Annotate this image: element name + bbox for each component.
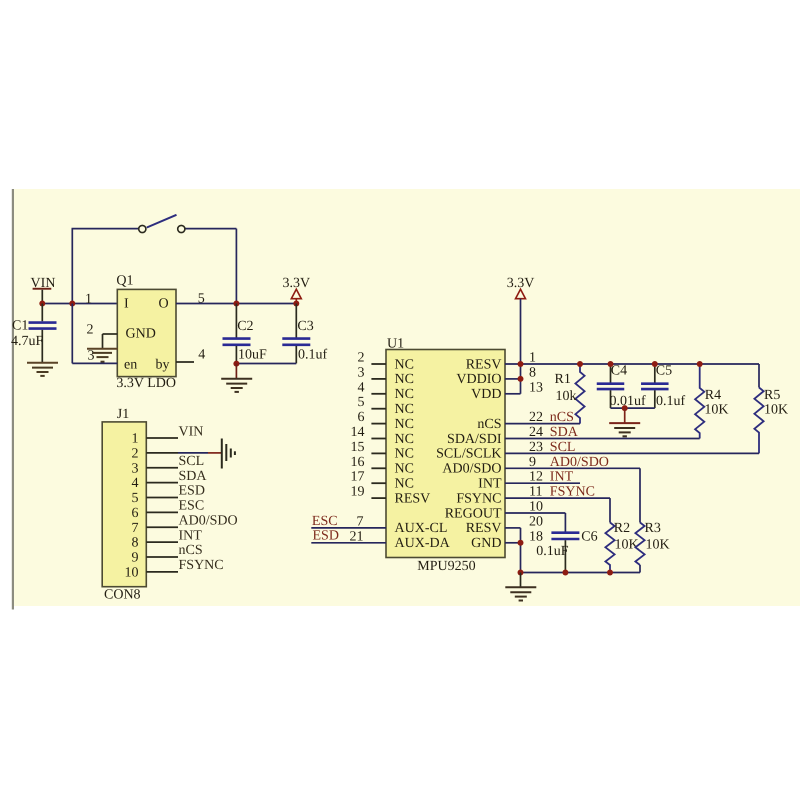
ground (C1) — [27, 363, 58, 376]
svg-text:2: 2 — [87, 323, 94, 338]
svg-text:5: 5 — [132, 491, 139, 506]
svg-text:SDA/SDI: SDA/SDI — [447, 432, 502, 447]
svg-text:O: O — [159, 297, 169, 312]
svg-text:2: 2 — [132, 446, 139, 461]
resistor R5 — [754, 364, 788, 453]
svg-text:AUX-DA: AUX-DA — [395, 536, 451, 551]
svg-text:3: 3 — [132, 461, 139, 476]
wire Q1 pin 2 to ground — [103, 334, 118, 349]
svg-text:FSYNC: FSYNC — [456, 491, 501, 506]
ground (C2) — [221, 364, 252, 392]
svg-text:FSYNC: FSYNC — [550, 485, 595, 500]
svg-text:NC: NC — [395, 387, 414, 402]
regulator Q1 3.3V LDO — [116, 274, 176, 391]
svg-text:GND: GND — [126, 327, 156, 342]
svg-text:INT: INT — [478, 477, 502, 492]
svg-text:LDO: LDO — [147, 376, 176, 391]
wire INT stub (pin 12) — [505, 482, 580, 484]
net label VIN (J1) — [179, 424, 204, 439]
svg-text:FSYNC: FSYNC — [179, 558, 224, 573]
svg-text:VIN: VIN — [179, 424, 204, 439]
svg-text:11: 11 — [529, 485, 542, 500]
svg-text:R5: R5 — [764, 388, 780, 403]
pin number 20 (U1) — [529, 514, 543, 529]
wire U1 left pin stubs — [371, 364, 386, 498]
svg-text:en: en — [124, 358, 137, 373]
junction C4 top — [608, 361, 614, 367]
svg-text:MPU9250: MPU9250 — [417, 559, 475, 574]
IC U1 MPU9250 — [386, 337, 505, 575]
svg-text:8: 8 — [529, 365, 536, 380]
resistor R4 — [695, 364, 728, 439]
wire ground rail — [521, 572, 641, 574]
svg-text:19: 19 — [351, 485, 365, 500]
svg-text:RESV: RESV — [466, 357, 502, 372]
pin number 23 / net label SCL — [529, 440, 575, 455]
ground (C4 C5) — [609, 408, 640, 436]
pin number 18 (U1) — [529, 529, 543, 544]
svg-text:NC: NC — [395, 432, 414, 447]
svg-text:5: 5 — [358, 395, 365, 410]
net label ESC (J1) — [179, 499, 205, 514]
svg-text:9: 9 — [132, 551, 139, 566]
power 3.3V (left) — [282, 276, 310, 304]
wire VDDIO stub — [505, 378, 521, 380]
svg-text:C6: C6 — [581, 529, 597, 544]
svg-text:SCL: SCL — [179, 454, 205, 469]
svg-text:16: 16 — [351, 455, 365, 470]
junction ground rail left — [518, 570, 524, 576]
svg-text:GND: GND — [471, 536, 501, 551]
junction R2 bottom — [607, 570, 613, 576]
wire Q1 pin 4 stub — [176, 361, 194, 363]
svg-text:INT: INT — [179, 528, 203, 543]
junction pin18/pin20 — [518, 540, 524, 546]
svg-text:15: 15 — [351, 440, 365, 455]
svg-text:by: by — [156, 358, 170, 373]
wire switch right leg — [185, 229, 237, 304]
svg-text:RESV: RESV — [395, 491, 431, 506]
pin number 22 / net label nCS — [529, 410, 574, 425]
switch S1 — [139, 215, 185, 233]
ground (U1) — [505, 573, 536, 601]
svg-text:6: 6 — [358, 410, 365, 425]
resistor R2 — [605, 521, 638, 573]
svg-text:14: 14 — [351, 425, 365, 440]
net label FSYNC (J1) — [179, 558, 224, 573]
svg-text:9: 9 — [529, 455, 536, 470]
svg-text:R2: R2 — [614, 521, 630, 536]
svg-text:nCS: nCS — [179, 543, 203, 558]
pin number 11 / net label FSYNC — [529, 485, 595, 500]
svg-text:C1: C1 — [12, 319, 28, 334]
svg-text:CON8: CON8 — [104, 588, 141, 603]
svg-text:R1: R1 — [555, 372, 571, 387]
svg-text:10K: 10K — [764, 402, 788, 417]
svg-text:12: 12 — [529, 470, 543, 485]
svg-text:0.1uf: 0.1uf — [656, 394, 686, 409]
svg-text:R4: R4 — [705, 388, 721, 403]
svg-text:VDD: VDD — [471, 387, 501, 402]
svg-text:ESC: ESC — [312, 514, 338, 529]
wire en (pin 3) — [72, 304, 117, 364]
pin number 24 / net label SDA — [529, 425, 579, 440]
earth ground (J1 pin 2) — [222, 439, 235, 469]
svg-text:ESD: ESD — [179, 484, 205, 499]
svg-text:I: I — [124, 297, 129, 312]
net label ESC (U1 pin 7) — [312, 514, 364, 529]
svg-text:R3: R3 — [645, 521, 661, 536]
svg-text:1: 1 — [85, 292, 92, 307]
svg-text:C4: C4 — [611, 363, 627, 378]
junction C4/C5 ground — [622, 405, 628, 411]
wire VDD stub — [505, 393, 521, 395]
wire nCS (pin 22) — [505, 423, 580, 425]
capacitor C2 — [223, 304, 268, 364]
power 3.3V (U1) — [507, 276, 535, 394]
capacitor C3 — [282, 304, 327, 364]
svg-text:10K: 10K — [704, 402, 728, 417]
junction C2 top — [233, 301, 239, 307]
svg-text:18: 18 — [529, 529, 543, 544]
svg-text:10uF: 10uF — [238, 348, 267, 363]
net label nCS (J1) — [179, 543, 203, 558]
svg-text:20: 20 — [529, 514, 543, 529]
svg-text:17: 17 — [351, 470, 365, 485]
svg-text:24: 24 — [529, 425, 543, 440]
junction 3.3V node — [293, 301, 299, 307]
svg-text:NC: NC — [395, 402, 414, 417]
junction VIN — [39, 301, 45, 307]
svg-text:NC: NC — [395, 462, 414, 477]
pin number 1 (U1) — [529, 351, 536, 366]
junction VDDIO — [518, 376, 524, 382]
wire GND (pin 18) — [505, 543, 521, 573]
svg-text:INT: INT — [550, 470, 574, 485]
svg-text:4.7uF: 4.7uF — [11, 334, 44, 349]
svg-text:Q1: Q1 — [116, 274, 133, 289]
capacitor C5 — [641, 363, 685, 409]
pin number 3 (Q1) — [88, 349, 95, 364]
junction C5 top — [652, 361, 658, 367]
U1 left pin numbers — [351, 351, 365, 500]
pin number 9 / net label AD0/SDO — [529, 455, 609, 470]
capacitor C4 — [597, 363, 646, 409]
svg-text:SCL/SCLK: SCL/SCLK — [436, 447, 501, 462]
net label ESD (U1 pin 21) — [313, 529, 364, 545]
junction C2 ground — [233, 361, 239, 367]
svg-text:VDDIO: VDDIO — [456, 372, 501, 387]
svg-text:10: 10 — [529, 500, 543, 515]
wire C4 C5 bottom link — [611, 407, 655, 409]
svg-text:0.1uf: 0.1uf — [298, 348, 328, 363]
junction R4 top — [697, 361, 703, 367]
pin number 1 (Q1) — [85, 292, 92, 307]
pin number 8 (U1) — [529, 365, 536, 380]
svg-text:C2: C2 — [237, 319, 253, 334]
capacitor C6 — [536, 529, 597, 572]
svg-text:NC: NC — [395, 447, 414, 462]
capacitor C1 — [11, 304, 57, 363]
connector J1 CON8 — [102, 407, 146, 603]
net label SDA (J1) — [179, 469, 208, 484]
svg-text:nCS: nCS — [477, 417, 501, 432]
svg-text:SDA: SDA — [179, 469, 208, 484]
net label AD0/SDO (J1) — [179, 514, 238, 529]
svg-text:RESV: RESV — [466, 521, 502, 536]
resistor R1 — [555, 364, 585, 424]
svg-text:2: 2 — [358, 351, 365, 366]
svg-text:8: 8 — [132, 536, 139, 551]
svg-text:AD0/SDO: AD0/SDO — [179, 514, 238, 529]
wire SCL (pin 23) — [505, 452, 759, 454]
svg-text:SDA: SDA — [550, 425, 579, 440]
svg-text:NC: NC — [395, 477, 414, 492]
power flag VIN — [31, 276, 56, 304]
ground (Q1 pin 2) — [87, 349, 118, 362]
wire Q1 output rail — [176, 303, 296, 305]
wire J1 pin stubs — [146, 438, 178, 572]
svg-text:NC: NC — [395, 372, 414, 387]
net label SCL (J1) — [179, 454, 205, 469]
svg-text:REGOUT: REGOUT — [445, 506, 502, 521]
wire C2 C3 bottom link — [236, 363, 296, 365]
svg-text:0.01uf: 0.01uf — [610, 394, 647, 409]
svg-text:AUX-CL: AUX-CL — [395, 521, 448, 536]
svg-text:23: 23 — [529, 440, 543, 455]
svg-text:3: 3 — [88, 349, 95, 364]
svg-text:22: 22 — [529, 410, 543, 425]
svg-text:AD0/SDO: AD0/SDO — [550, 455, 609, 470]
svg-text:C5: C5 — [656, 363, 672, 378]
svg-text:1: 1 — [529, 351, 536, 366]
svg-text:C3: C3 — [297, 319, 313, 334]
svg-text:4: 4 — [358, 380, 365, 395]
schematic sheet background — [12, 189, 800, 610]
junction R1 top — [577, 361, 583, 367]
svg-text:13: 13 — [529, 380, 543, 395]
resistor R3 — [635, 521, 669, 573]
svg-text:0.1uF: 0.1uF — [536, 544, 569, 559]
svg-text:10k: 10k — [556, 389, 577, 404]
svg-text:10: 10 — [125, 565, 139, 580]
wire VIN to Q1 pin 1 — [42, 303, 117, 305]
svg-text:10K: 10K — [615, 537, 639, 552]
svg-text:SCL: SCL — [550, 440, 576, 455]
pin number 13 (U1) — [529, 380, 543, 395]
wire REGOUT (pin 10) — [505, 513, 565, 532]
net label ESD (J1) — [179, 484, 205, 499]
wire switch left leg — [72, 229, 140, 305]
svg-text:ESD: ESD — [313, 529, 339, 544]
wire SDA (pin 24) — [505, 438, 700, 440]
svg-text:4: 4 — [132, 476, 139, 491]
pin number 12 / net label INT — [529, 470, 574, 485]
junction switch left / en — [69, 301, 75, 307]
svg-text:1: 1 — [132, 432, 139, 447]
svg-text:3.3V: 3.3V — [116, 376, 144, 391]
svg-text:4: 4 — [198, 348, 205, 363]
net label INT (J1) — [179, 528, 203, 543]
wire J1 pin 2 to earth — [178, 452, 221, 454]
svg-text:6: 6 — [132, 506, 139, 521]
svg-text:AD0/SDO: AD0/SDO — [442, 462, 501, 477]
pin number 10 (U1) — [529, 500, 543, 515]
wire RESV (pin 20) — [505, 528, 521, 543]
wire AD0/SDO (pin 9) — [505, 468, 640, 522]
svg-text:10K: 10K — [646, 537, 670, 552]
wire AUX-CL (pin 7) — [311, 527, 386, 529]
pin number 4 (Q1) — [198, 348, 205, 363]
junction 3.3V / RESV — [518, 361, 524, 367]
svg-text:NC: NC — [395, 357, 414, 372]
svg-text:ESC: ESC — [179, 499, 205, 514]
junction C6 bottom — [562, 570, 568, 576]
svg-text:U1: U1 — [387, 337, 404, 352]
pin number 2 (Q1) — [87, 323, 94, 338]
svg-text:NC: NC — [395, 417, 414, 432]
wire FSYNC (pin 11) — [505, 498, 610, 522]
svg-text:nCS: nCS — [550, 410, 574, 425]
wire AUX-DA (pin 21) — [311, 542, 386, 544]
svg-text:7: 7 — [132, 521, 139, 536]
svg-text:3: 3 — [358, 365, 365, 380]
wire 3.3V rail — [505, 363, 759, 365]
svg-text:J1: J1 — [117, 407, 129, 422]
pin number 5 (Q1) — [198, 292, 205, 307]
